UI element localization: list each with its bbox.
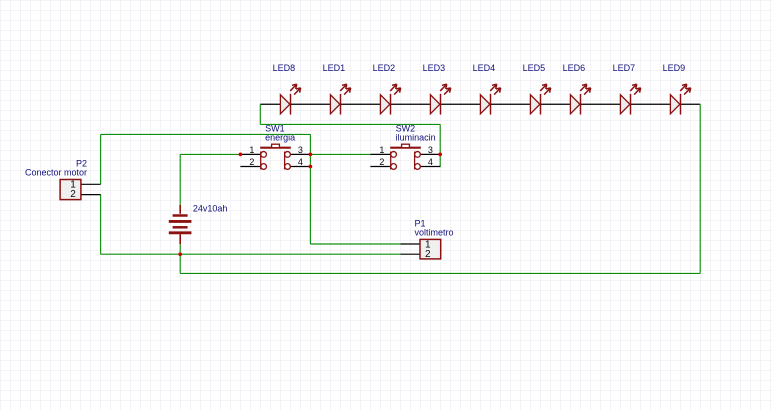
wire: horizontal above SW1/SW2 (260, 123, 440, 125)
SW1 pin 4 (291, 166, 311, 168)
P2 body (60, 180, 81, 200)
wire: P2 pin2 down (100, 195, 102, 255)
junction at SW1 pin4 (309, 165, 313, 169)
LED D7 (620, 84, 640, 114)
SW1 pin 2 (240, 166, 260, 168)
svg-text:3: 3 (428, 145, 433, 155)
SW2 actuator bar (390, 147, 421, 149)
battery BAT1 (169, 205, 192, 244)
SW2 actuator bump (402, 144, 410, 148)
SW1 left contact bar (260, 152, 262, 170)
wire: P2 pin1 up (100, 134, 102, 184)
junction at SW2 pin3 (438, 153, 442, 157)
svg-text:2: 2 (70, 189, 76, 200)
P2 pin 2 (81, 194, 101, 196)
wire: LED chain horizontal (black) (260, 103, 700, 105)
P1 pin 1 (401, 243, 421, 245)
svg-text:LED4: LED4 (473, 63, 496, 73)
svg-text:4: 4 (298, 157, 303, 167)
wire: battery top to SW1 pin1 (180, 153, 240, 155)
svg-text:LED9: LED9 (663, 63, 686, 73)
wire: SW1 pin3 to pin4 bridge (309, 154, 311, 166)
junction at SW1 pin1 (239, 153, 243, 157)
svg-text:LED6: LED6 (563, 63, 586, 73)
P1 body (420, 239, 441, 259)
SW2 contact circles left (391, 152, 397, 158)
SW1 pin 3 (291, 153, 311, 155)
junction at SW1 pin3 (309, 153, 313, 157)
LED D5 (530, 84, 550, 114)
svg-text:LED2: LED2 (373, 63, 396, 73)
LED D3 (430, 84, 450, 114)
SW1 actuator bump (272, 144, 280, 148)
wire: SW1 pin3 to SW2 pin1 (310, 153, 370, 155)
wire: bottom horizontal (180, 272, 700, 274)
battery plate long 1 (169, 220, 192, 223)
battery top pin (179, 205, 181, 214)
svg-text:2: 2 (249, 157, 254, 167)
svg-text:1: 1 (379, 145, 384, 155)
wire: down to SW1 pin3 (309, 134, 311, 154)
P2 pin 1 (81, 183, 101, 185)
SW2 pin 4 (421, 166, 441, 168)
SW2 left contact bar (390, 152, 392, 170)
svg-text:energia: energia (265, 133, 295, 143)
svg-text:4: 4 (428, 157, 433, 167)
P1 pin 2 (401, 253, 421, 255)
connector P2 (60, 180, 101, 201)
junction at battery bottom (178, 252, 182, 256)
svg-text:LED8: LED8 (273, 63, 296, 73)
switch SW2 (370, 144, 440, 169)
wire: battery bottom green stub (179, 244, 181, 254)
battery plate short 1 (173, 214, 188, 217)
svg-text:voltimetro: voltimetro (415, 228, 454, 238)
SW2 pin 3 (421, 153, 441, 155)
svg-text:Conector motor: Conector motor (25, 168, 87, 178)
switch SW1 (240, 144, 310, 169)
battery plate short 2 (173, 226, 188, 229)
LED D9 (670, 84, 690, 114)
SW1 actuator bar (260, 147, 291, 149)
wire: down to SW2 pin3/pin4 (439, 124, 441, 166)
wire: right vertical from LED row end (699, 104, 701, 273)
SW1 pin 1 (240, 153, 260, 155)
svg-text:1: 1 (249, 145, 254, 155)
svg-text:3: 3 (298, 145, 303, 155)
SW1 contact circles right (285, 152, 291, 158)
svg-text:LED1: LED1 (323, 63, 346, 73)
SW2 right contact bar (414, 152, 416, 170)
svg-text:LED5: LED5 (523, 63, 546, 73)
svg-text:LED7: LED7 (613, 63, 636, 73)
LED D2 (380, 84, 400, 114)
SW1 right contact bar (284, 152, 286, 170)
wire: mid horizontal battery junction to P1 pin2 (101, 253, 401, 255)
svg-text:24v10ah: 24v10ah (193, 204, 228, 214)
svg-text:2: 2 (425, 249, 431, 260)
SW2 pin 2 (370, 166, 390, 168)
SW2 pin 1 (370, 153, 390, 155)
battery plate long 2 (169, 231, 192, 234)
svg-text:LED3: LED3 (423, 63, 446, 73)
LED D8 (280, 84, 300, 114)
svg-text:2: 2 (379, 157, 384, 167)
wire: battery top vertical (179, 154, 181, 204)
LED D6 (570, 84, 590, 114)
wire: horizontal from P2 pin1 to SW1 pin3 column (101, 133, 311, 135)
wire: battery junction down to bottom wire (179, 254, 181, 273)
SW1 contact circles left (261, 152, 267, 158)
connector P1 (401, 239, 441, 260)
wire: horizontal to P1 pin1 (310, 243, 400, 245)
wire: SW1 pin4 down to P1 level (309, 167, 311, 245)
LED D1 (330, 84, 350, 114)
svg-text:iluminacin: iluminacin (396, 133, 436, 143)
battery bottom pin (179, 234, 181, 244)
SW2 contact circles right (415, 152, 421, 158)
LED D4 (480, 84, 500, 114)
wire: left LED row corner down (259, 104, 261, 124)
